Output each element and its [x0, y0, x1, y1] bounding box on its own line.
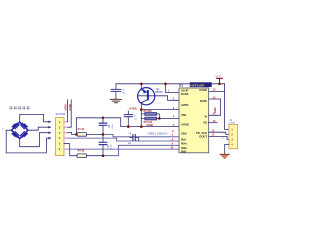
wire pin3 to R1: [68, 133, 77, 135]
wire RATE-XI gnd loop: [209, 99, 221, 115]
svg-text:AGND: AGND: [69, 103, 72, 110]
IC right pin numbers: [212, 89, 216, 137]
svg-text:R5 20K: R5 20K: [144, 110, 152, 113]
svg-text:R4 1K: R4 1K: [78, 150, 85, 153]
svg-text:1U: 1U: [134, 119, 137, 121]
wire INA-: [103, 134, 179, 136]
wire bridge left to pin4: [6, 130, 48, 153]
wire DVDD pin16: [209, 90, 225, 92]
svg-text:YDB1.1 2020.6.4: YDB1.1 2020.6.4: [147, 131, 167, 135]
capacitor C8: [133, 135, 135, 141]
ground symbol: [220, 154, 229, 159]
capacitor C6: [115, 84, 117, 99]
connector J2 CON6: [56, 118, 64, 156]
connector J1 CON4: [229, 124, 238, 148]
wire divider left rail: [140, 110, 142, 127]
svg-text:S8550: S8550: [155, 90, 163, 94]
connector pin stubs: [64, 122, 68, 149]
svg-text:VBG: VBG: [181, 131, 187, 135]
IC left pin numbers: [168, 90, 175, 150]
arrow pin2: [48, 126, 51, 129]
arrow pin1: [48, 121, 51, 124]
wire AVDD to pin3: [141, 109, 179, 111]
svg-text:1U: 1U: [122, 93, 125, 95]
wire R1 riser: [75, 118, 77, 135]
part name highlighted: [190, 82, 212, 87]
load cell title: [10, 107, 30, 110]
top rail VCC: [116, 83, 225, 85]
wire DOUT to J1: [209, 136, 229, 139]
capacitor C4: [99, 123, 107, 125]
wire pin1 riser AVDD: [66, 100, 68, 122]
svg-text:VSUP: VSUP: [181, 88, 189, 92]
wire J1 pin4 to ground: [225, 144, 229, 154]
svg-text:DVDD: DVDD: [199, 88, 207, 92]
svg-text:INB+: INB+: [181, 146, 188, 150]
transistor Q1: [138, 88, 155, 105]
arrow pin3: [48, 131, 51, 134]
wire R1 out: [87, 133, 103, 135]
wire R4 out: [87, 155, 103, 157]
arrow pin4: [48, 137, 51, 140]
IC U1 HX711: [179, 88, 209, 153]
svg-text:XO: XO: [203, 121, 207, 125]
wire INB+: [103, 145, 179, 155]
svg-text:AGND: AGND: [181, 123, 189, 127]
resistor R1: [77, 133, 87, 137]
capacitor C7: [124, 115, 132, 117]
svg-text:RATE: RATE: [200, 99, 207, 103]
wire pin2 riser AGND: [68, 100, 71, 127]
svg-text:0.1U: 0.1U: [112, 124, 114, 129]
wire VCC bus to J1: [225, 84, 229, 130]
svg-text:J2 CON6: J2 CON6: [55, 113, 66, 116]
svg-text:0.1U: 0.1U: [111, 144, 113, 149]
junction dots: [75, 83, 221, 158]
wire bridge top to pin1: [20, 115, 49, 123]
svg-text:INA-: INA-: [181, 138, 187, 142]
wire VFB: [159, 117, 179, 119]
wire bridge bottom to pin3: [20, 133, 49, 147]
capacitor C5: [99, 142, 107, 144]
resistor R5: [145, 113, 157, 116]
svg-text:CON4: CON4: [229, 123, 236, 125]
svg-text:DOUT: DOUT: [199, 135, 207, 139]
resistor R4: [77, 154, 87, 158]
svg-text:VCC: VCC: [215, 74, 222, 78]
svg-text:INA+: INA+: [181, 142, 188, 146]
wire pin5 riser to R4: [64, 144, 77, 156]
svg-text:AVDD: AVDD: [129, 106, 136, 110]
svg-text:VFB: VFB: [181, 113, 186, 117]
resistor R6: [145, 117, 157, 120]
svg-text:HX711GP: HX711GP: [191, 83, 205, 87]
wire VSUP: [166, 84, 180, 93]
wire PD_SCK to J1: [209, 132, 229, 134]
wire AGND rail top: [76, 118, 179, 127]
svg-text:AGND: AGND: [146, 124, 153, 127]
svg-text:R1 1K: R1 1K: [78, 128, 85, 131]
svg-text:AVDD: AVDD: [64, 104, 67, 111]
svg-text:SCK: SCK: [221, 133, 226, 135]
svg-text:BASE: BASE: [181, 92, 189, 96]
wire pin4 to INA+: [68, 138, 179, 141]
svg-text:XI: XI: [204, 114, 207, 118]
ground under C6: [110, 99, 121, 102]
IC left pin names: [181, 88, 189, 153]
svg-text:AVDD: AVDD: [181, 103, 188, 107]
svg-text:PD_SCK: PD_SCK: [196, 131, 207, 135]
svg-text:U1: U1: [179, 83, 183, 87]
svg-text:GND: GND: [214, 107, 217, 113]
wire pin6 to INB-: [68, 148, 179, 150]
wire bridge right to pin2: [28, 127, 48, 130]
svg-text:INB-: INB-: [181, 149, 187, 153]
wire XO stub: [209, 122, 218, 124]
IC right pin names: [196, 88, 207, 139]
bridge sensor: [12, 122, 29, 139]
